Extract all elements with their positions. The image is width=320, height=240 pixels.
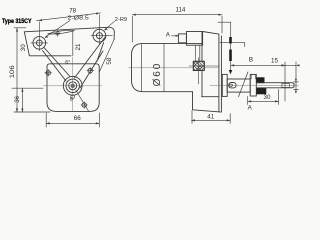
right hole: [96, 33, 102, 39]
output hub: [227, 79, 250, 92]
svg-text:30: 30: [264, 94, 271, 101]
gearbox body front view: [47, 64, 99, 112]
svg-text:B: B: [249, 57, 253, 64]
tangent line left boss to hub: [43, 48, 70, 82]
bearing black top: [257, 77, 265, 83]
right boss: [93, 29, 106, 42]
slash: [239, 72, 249, 97]
mounting plate edge-on: [220, 43, 245, 47]
svg-text:15: 15: [271, 57, 278, 64]
dimension 78: [37, 13, 101, 21]
collar: [250, 74, 256, 96]
svg-text:2-R9: 2-R9: [115, 17, 127, 23]
58 slant line: [99, 40, 114, 73]
svg-text:114: 114: [176, 7, 186, 14]
top line above gearbox: [218, 21, 231, 23]
svg-text:21: 21: [75, 43, 82, 50]
bearing black bottom: [257, 88, 267, 95]
left hole: [36, 40, 42, 46]
svg-text:2-Ø8.5: 2-Ø8.5: [68, 15, 89, 21]
slot in plate: [47, 30, 74, 34]
worm section hatched: [189, 56, 219, 84]
svg-text:58: 58: [106, 57, 113, 64]
dimension B: [231, 64, 285, 66]
output hub circles: [63, 76, 82, 95]
output flange: [222, 74, 227, 96]
bolt hole upper-left: [45, 69, 52, 76]
svg-text:6: 6: [70, 97, 73, 103]
dimension 15: [285, 62, 296, 101]
dimension 114: [132, 15, 222, 42]
diagonal hub to lower-right hole: [76, 91, 89, 112]
svg-text:106: 106: [9, 65, 16, 79]
screw through plate: [230, 22, 232, 70]
motor body: [132, 43, 203, 91]
connector: [178, 34, 186, 43]
dimension 21: [72, 31, 74, 56]
svg-text:41: 41: [207, 113, 214, 120]
svg-text:Type 315CY: Type 315CY: [2, 18, 32, 25]
hub centerline horizontal: [44, 85, 103, 87]
tangent line right boss to hub: [75, 37, 106, 89]
motor seam 1: [141, 44, 143, 92]
plate right tangent to body: [97, 43, 104, 62]
dimension 66: [46, 113, 99, 127]
gearbox slab: [193, 32, 222, 113]
keyway slot: [229, 83, 237, 88]
svg-text:36: 36: [14, 95, 21, 102]
output shaft: [256, 83, 294, 88]
motor centerline: [129, 67, 219, 69]
dimension 36 line: [12, 88, 43, 112]
dimension 30: [248, 90, 279, 105]
motor seam 2: [163, 44, 165, 92]
svg-text:6°: 6°: [65, 60, 70, 66]
bolt hole upper-right: [87, 67, 94, 74]
shaft centerline: [210, 84, 299, 86]
hub centerline vertical: [72, 57, 74, 111]
svg-text:Ø60: Ø60: [152, 62, 163, 87]
svg-text:30: 30: [20, 44, 27, 51]
top plate outline: [24, 27, 109, 32]
dimension 106 line: [14, 28, 50, 112]
dimension 41: [192, 111, 231, 124]
terminal box: [186, 32, 202, 46]
shaft tip diameter dim: [294, 78, 299, 93]
bolt hole lower-right: [81, 102, 88, 109]
capacitor studs: [195, 45, 200, 61]
svg-text:66: 66: [74, 115, 81, 122]
slot circle: [56, 32, 59, 35]
left boss: [33, 37, 46, 50]
shaft hole: [282, 83, 289, 87]
svg-text:78: 78: [69, 8, 76, 15]
keyway circle below hub: [71, 95, 75, 99]
